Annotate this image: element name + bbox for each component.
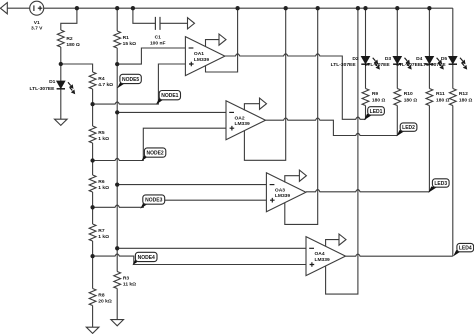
resistor R3 [114, 272, 136, 289]
node OA4 inverting tap [115, 246, 119, 250]
LED D1 [29, 79, 75, 94]
svg-text:R3: R3 [123, 276, 130, 282]
node rail-OA2 loop junction [284, 6, 288, 10]
svg-text:NODE4: NODE4 [138, 255, 155, 261]
wire R1 jog to OA1 inverting input [117, 48, 185, 64]
resistor R8 [89, 289, 112, 306]
svg-text:LM339: LM339 [315, 257, 331, 263]
resistor R2 [57, 30, 80, 48]
svg-text:3.7 V: 3.7 V [31, 26, 43, 32]
svg-text:D2: D2 [352, 56, 359, 62]
node rail-OA3 loop junction [316, 6, 320, 10]
node rail-R2 junction [75, 6, 79, 10]
node R1 bottom junction [115, 62, 119, 66]
node rail-D2 junction [363, 6, 367, 10]
svg-text:11 kΩ: 11 kΩ [123, 281, 136, 287]
wire R11 to LED3 junction [428, 106, 430, 192]
svg-text:20 kΩ: 20 kΩ [98, 298, 112, 304]
resistor R11 [426, 89, 450, 106]
port net at OA4 power pin [339, 234, 346, 245]
wire node4 R7-R8 junction to OA4 noninverting input [93, 254, 306, 265]
svg-text:R5: R5 [98, 130, 105, 136]
node LED1 flag [364, 107, 385, 121]
wire OA2 output to LED2 junction [266, 118, 398, 136]
op-amp OA1 [185, 37, 225, 76]
capacitor C1 [150, 17, 166, 47]
node rail-D4 junction [427, 6, 431, 10]
svg-text:R4: R4 [98, 76, 105, 82]
wire D1 cathode to ground [60, 89, 62, 119]
wire D2 to R9 [365, 64, 367, 88]
node NODE4 flag [132, 252, 157, 265]
svg-text:R7: R7 [98, 228, 105, 234]
wire R6 to R7 [92, 192, 94, 224]
wire R3 to ground [116, 289, 118, 320]
wire D1 junction to R4 top [61, 64, 93, 72]
svg-text:1 kΩ: 1 kΩ [98, 234, 109, 240]
wire R12 to LED4 junction [452, 106, 454, 257]
port net at OA1 power pin [219, 34, 226, 45]
LED D2 [331, 56, 380, 69]
node rail-OA1 loop junction [235, 6, 239, 10]
svg-text:OA1: OA1 [194, 51, 204, 57]
wire D5 to R12 [452, 64, 454, 88]
wire R2 to D1 junction [60, 47, 62, 64]
node OA2 inverting tap [115, 110, 119, 114]
node LED2 flag [396, 123, 417, 136]
port net after C1 [188, 18, 195, 29]
wire node5 tap to OA3 inverting input [117, 184, 266, 186]
ground under R8 [86, 327, 99, 333]
resistor R6 [89, 175, 109, 192]
LED D4 [396, 56, 444, 69]
wire R9 to LED1 junction [365, 106, 367, 120]
wire OA3 power loop to rail [285, 8, 318, 224]
wire node5 tap to OA2 inverting input [117, 111, 226, 113]
svg-text:LM339: LM339 [194, 57, 210, 63]
svg-text:180 Ω: 180 Ω [404, 98, 418, 104]
wire D1 anode [60, 64, 62, 81]
svg-text:R1: R1 [123, 35, 130, 41]
svg-text:180 Ω: 180 Ω [372, 98, 386, 104]
svg-text:R2: R2 [66, 36, 73, 42]
svg-text:R11: R11 [436, 91, 445, 97]
wire C1 to port [160, 22, 188, 24]
resistor R4 [89, 72, 113, 89]
node R5-R6 junction [90, 158, 94, 162]
node LED3 flag [428, 179, 449, 193]
wire node5 tap to OA4 inverting input [117, 247, 306, 249]
svg-text:180 Ω: 180 Ω [436, 98, 450, 104]
svg-text:180 Ω: 180 Ω [66, 42, 80, 48]
wire V1 minus to port [7, 7, 29, 9]
port net at OA3 power pin [299, 170, 306, 181]
svg-text:LTL-307EE: LTL-307EE [29, 86, 55, 92]
node R2-D1-R4 junction [59, 62, 63, 66]
svg-text:NODE2: NODE2 [146, 150, 163, 156]
svg-text:LED1: LED1 [370, 109, 383, 115]
wire rail to D2 [365, 8, 367, 56]
port ground net at V1 minus [0, 3, 7, 14]
node R4-R5 junction [90, 102, 94, 106]
node OA3 inverting tap [115, 182, 119, 186]
svg-text:R6: R6 [98, 179, 105, 185]
wire R4 bottom to node1 corner [93, 64, 186, 104]
svg-text:R12: R12 [459, 91, 468, 97]
node rail-C1 junction [131, 6, 135, 10]
svg-text:1 kΩ: 1 kΩ [98, 185, 109, 191]
svg-text:LED2: LED2 [402, 125, 415, 131]
resistor R1 [114, 31, 136, 48]
svg-text:D1: D1 [49, 79, 56, 85]
svg-text:NODE1: NODE1 [161, 93, 178, 99]
svg-text:C1: C1 [155, 35, 162, 41]
svg-text:100 nF: 100 nF [150, 40, 166, 46]
svg-text:15 kΩ: 15 kΩ [123, 41, 137, 47]
svg-text:OA4: OA4 [315, 251, 325, 257]
svg-text:NODE3: NODE3 [145, 197, 162, 203]
resistor R9 [362, 89, 385, 106]
svg-text:LTL-307EE: LTL-307EE [421, 62, 447, 68]
svg-text:LTL-307EE: LTL-307EE [365, 62, 391, 68]
svg-text:V1: V1 [34, 20, 40, 26]
wire D4 to R11 [428, 64, 430, 88]
wire R5 to R6 [92, 143, 94, 175]
node R7-R8 junction [90, 254, 94, 258]
wire R1 bottom junction [116, 48, 118, 64]
svg-text:D5: D5 [441, 56, 448, 62]
wire R4 to R5 [92, 89, 94, 126]
LED D5 [421, 56, 468, 69]
wire rail to D4 [428, 8, 430, 56]
svg-text:1 kΩ: 1 kΩ [98, 136, 109, 142]
svg-text:NODE5: NODE5 [122, 77, 139, 83]
node LED4 flag [453, 243, 474, 256]
wire R10 to LED2 junction [396, 106, 398, 136]
op-amp OA3 [266, 173, 306, 212]
wire OA4 output to LED4 junction [346, 254, 453, 256]
svg-text:LTL-307EE: LTL-307EE [396, 62, 422, 68]
svg-text:R8: R8 [98, 293, 105, 299]
node R6-R7 junction [90, 205, 94, 209]
wire rail to C1 [133, 8, 156, 23]
LED D3 [365, 56, 412, 69]
wire R7 to R8 [92, 241, 94, 289]
op-amp OA4 [306, 237, 346, 276]
wire OA4 power loop to rail [326, 8, 358, 294]
wire OA1 output to LED1 junction [225, 54, 366, 120]
resistor R12 [449, 89, 472, 106]
wire node2 R5-R6 junction to OA2 noninverting input [93, 128, 226, 160]
node NODE2 flag [141, 148, 165, 161]
wire R8 to ground [92, 306, 94, 328]
svg-text:LTL-307EE: LTL-307EE [331, 62, 357, 68]
svg-text:D4: D4 [416, 56, 423, 62]
node NODE3 flag [140, 195, 164, 209]
resistor R5 [89, 126, 109, 143]
wire OA1 power loop to rail [206, 8, 238, 72]
svg-text:LM339: LM339 [235, 121, 251, 127]
svg-text:LED4: LED4 [459, 246, 472, 252]
node rail-D3 junction [395, 6, 399, 10]
svg-text:4.7 kΩ: 4.7 kΩ [98, 82, 113, 88]
svg-text:OA3: OA3 [275, 187, 285, 193]
svg-text:LED3: LED3 [434, 181, 447, 187]
resistor R7 [89, 224, 109, 241]
wire rail to R1 [116, 8, 118, 31]
wire OA2 power loop to rail [244, 8, 285, 160]
op-amp OA2 [226, 101, 266, 140]
node rail-OA4 loop junction [356, 6, 360, 10]
wire OA3 output to LED3 junction [306, 190, 430, 192]
svg-text:R9: R9 [372, 91, 379, 97]
ground under R3 [111, 320, 124, 326]
wire D3 to R10 [396, 64, 398, 88]
wire node3 R6-R7 junction to OA3 noninverting input [93, 200, 267, 207]
wire top supply rail [44, 7, 453, 9]
svg-text:R10: R10 [404, 91, 413, 97]
port net at OA2 power pin [260, 98, 267, 109]
svg-text:180 Ω: 180 Ω [459, 98, 473, 104]
ground under D1 [55, 119, 68, 125]
node rail-R1 junction [115, 6, 119, 10]
wire node5 vertical R1 to R3 [116, 64, 118, 271]
wire rail to R2 [61, 8, 77, 30]
wire rail corner to D5 [452, 8, 454, 56]
wire rail to D3 [396, 8, 398, 56]
node NODE5 flag [117, 74, 141, 88]
node NODE1 flag [156, 91, 181, 105]
svg-text:OA2: OA2 [235, 115, 245, 121]
svg-text:D3: D3 [385, 56, 392, 62]
svg-text:LM339: LM339 [275, 193, 291, 199]
resistor R10 [394, 89, 417, 106]
voltage source V1 [30, 1, 44, 31]
